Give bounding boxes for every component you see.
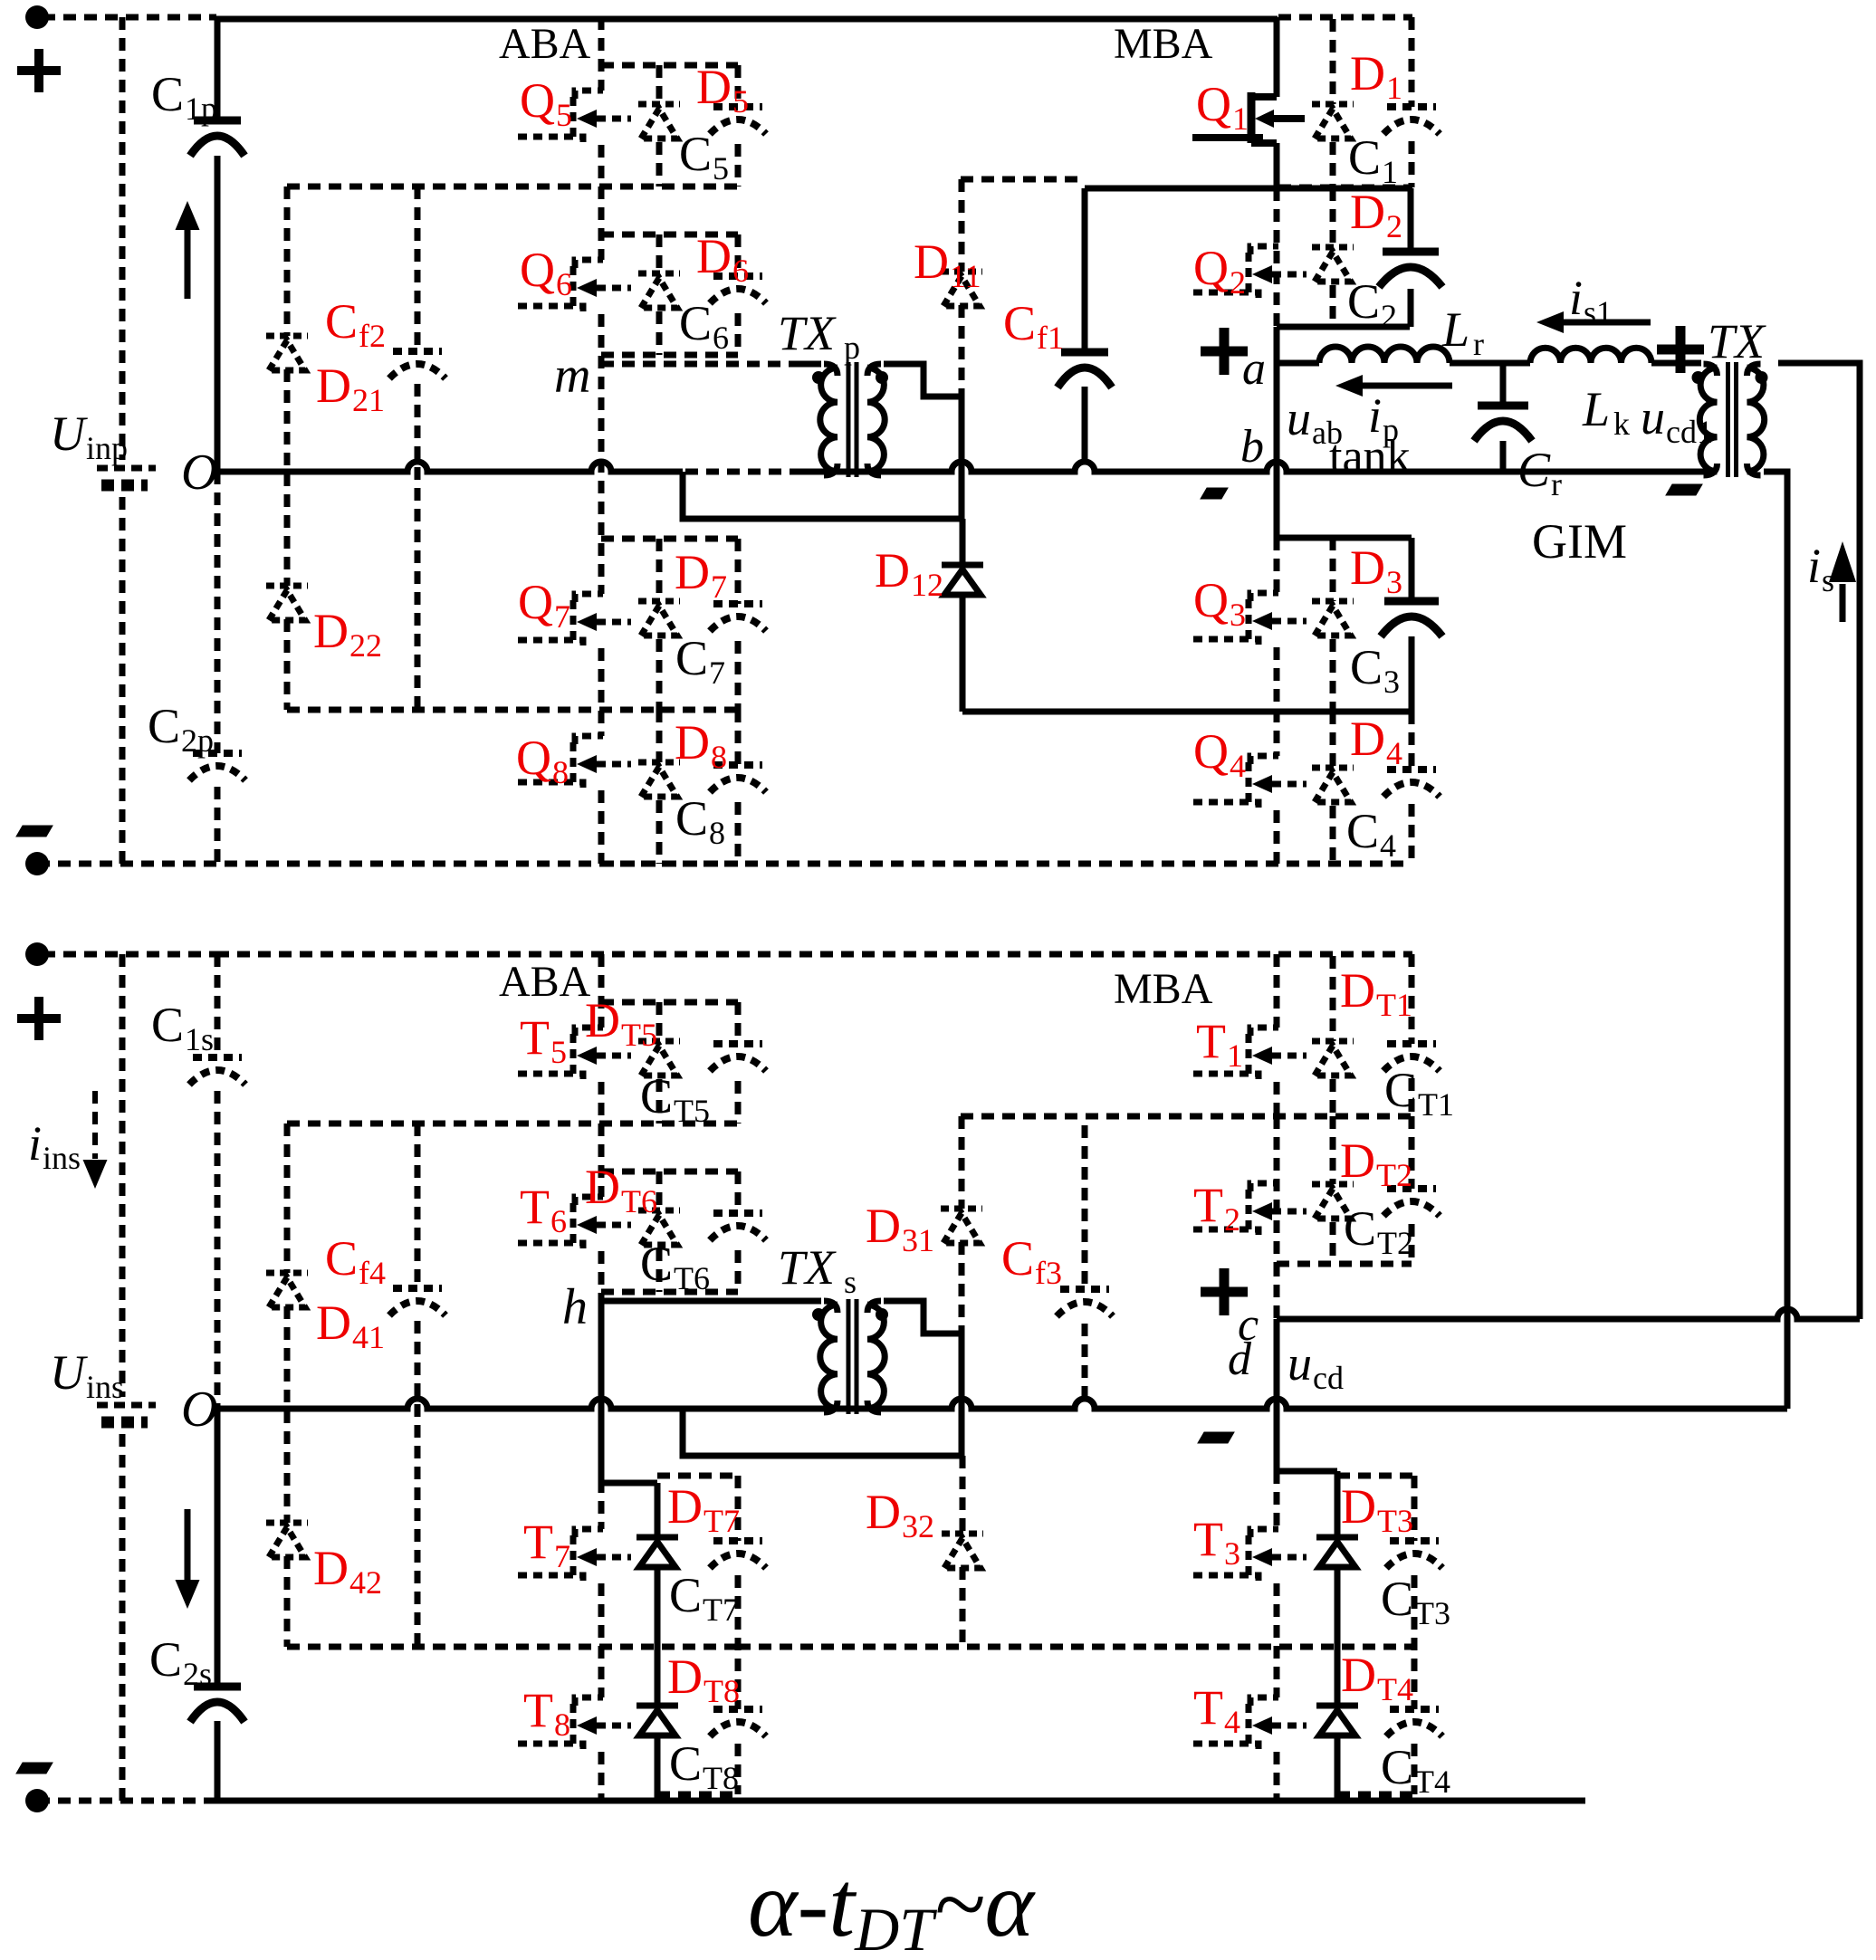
svg-text:C: C (1381, 1572, 1413, 1626)
svg-text:f2: f2 (359, 318, 386, 354)
svg-text:C: C (148, 699, 180, 753)
svg-text:2: 2 (1381, 298, 1397, 334)
svg-text:u: u (1287, 391, 1311, 445)
svg-text:T8: T8 (703, 1760, 739, 1796)
svg-text:C: C (1344, 1201, 1376, 1256)
svg-text:1s: 1s (185, 1021, 214, 1057)
svg-text:T6: T6 (674, 1260, 710, 1296)
svg-text:Q: Q (520, 243, 555, 297)
svg-text:ins: ins (86, 1369, 124, 1405)
svg-text:f4: f4 (359, 1255, 386, 1291)
svg-text:L: L (1582, 382, 1610, 436)
svg-text:2: 2 (1230, 264, 1246, 301)
svg-text:T1: T1 (1418, 1086, 1454, 1123)
svg-text:3: 3 (1224, 1535, 1240, 1572)
svg-text:i: i (1569, 271, 1583, 325)
svg-text:5: 5 (550, 1034, 567, 1070)
svg-text:U: U (50, 1345, 88, 1400)
svg-text:C: C (325, 294, 358, 349)
svg-text:s: s (1822, 562, 1834, 598)
svg-text:p: p (844, 330, 860, 366)
svg-text:TX: TX (778, 1240, 837, 1295)
svg-text:u: u (1287, 1336, 1312, 1391)
svg-text:TX: TX (778, 306, 837, 360)
svg-text:4: 4 (1386, 735, 1402, 771)
svg-text:D: D (1340, 1133, 1375, 1188)
svg-text:7: 7 (711, 569, 727, 605)
svg-text:5: 5 (713, 150, 729, 186)
svg-text:b: b (1240, 421, 1264, 473)
svg-text:4: 4 (1230, 748, 1246, 784)
svg-text:T4: T4 (1377, 1671, 1413, 1707)
svg-text:Q: Q (1193, 724, 1229, 779)
svg-text:C: C (1001, 1231, 1034, 1286)
svg-text:6: 6 (556, 266, 572, 302)
svg-text:D: D (313, 604, 349, 658)
svg-text:1: 1 (1227, 1037, 1243, 1074)
svg-text:41: 41 (352, 1319, 385, 1355)
svg-text:D: D (875, 543, 910, 598)
svg-text:O: O (181, 1382, 217, 1438)
svg-text:T7: T7 (703, 1503, 740, 1539)
svg-text:ABA: ABA (499, 20, 591, 68)
svg-text:C: C (640, 1237, 673, 1291)
svg-text:6: 6 (732, 253, 749, 289)
svg-text:C: C (669, 1736, 702, 1791)
svg-text:7: 7 (554, 598, 570, 635)
svg-text:D: D (313, 1541, 349, 1595)
svg-text:4: 4 (1224, 1704, 1240, 1740)
svg-text:Q: Q (1196, 77, 1231, 131)
svg-text:D: D (1350, 185, 1385, 239)
svg-text:inp: inp (86, 430, 128, 466)
svg-text:Q: Q (520, 73, 555, 128)
svg-text:C: C (149, 1632, 182, 1687)
svg-text:D: D (675, 715, 710, 770)
svg-text:C: C (675, 631, 708, 685)
svg-text:C: C (1347, 274, 1380, 329)
svg-text:u: u (1641, 390, 1665, 445)
svg-text:T: T (1193, 1680, 1223, 1735)
svg-text:5: 5 (732, 83, 749, 120)
svg-text:T: T (1196, 1014, 1226, 1068)
svg-text:1p: 1p (185, 91, 217, 127)
svg-text:C: C (1348, 130, 1381, 185)
svg-text:Q: Q (1193, 241, 1229, 295)
svg-text:Q: Q (1193, 573, 1229, 627)
svg-text:U: U (50, 406, 88, 461)
svg-text:C: C (151, 67, 184, 121)
svg-text:T2: T2 (1376, 1157, 1412, 1193)
svg-text:D: D (1341, 1648, 1376, 1702)
svg-text:D: D (667, 1479, 703, 1534)
svg-text:2: 2 (1224, 1201, 1240, 1238)
svg-text:C: C (1384, 1063, 1417, 1117)
svg-text:4: 4 (1380, 827, 1396, 864)
svg-text:7: 7 (709, 655, 725, 691)
svg-text:8: 8 (554, 1707, 570, 1743)
svg-text:T: T (1193, 1178, 1223, 1232)
svg-text:3: 3 (1230, 597, 1246, 633)
svg-text:D: D (914, 234, 949, 289)
svg-text:12: 12 (911, 567, 943, 603)
svg-text:f1: f1 (1037, 320, 1064, 356)
svg-text:T2: T2 (1377, 1225, 1413, 1261)
svg-text:C: C (1517, 443, 1551, 497)
svg-text:D: D (675, 545, 710, 599)
svg-text:s: s (844, 1264, 857, 1300)
svg-text:T7: T7 (703, 1592, 739, 1628)
svg-text:T8: T8 (703, 1673, 740, 1709)
svg-text:O: O (181, 445, 217, 501)
svg-text:C: C (679, 127, 712, 181)
svg-text:C: C (679, 296, 712, 350)
svg-text:tank: tank (1329, 431, 1411, 483)
svg-text:6: 6 (713, 320, 729, 356)
svg-text:r: r (1473, 326, 1484, 362)
svg-text:D: D (585, 1160, 620, 1214)
svg-text:D: D (1350, 712, 1385, 766)
svg-text:T3: T3 (1414, 1595, 1450, 1631)
svg-text:cd1: cd1 (1666, 414, 1713, 450)
svg-text:TX: TX (1708, 314, 1766, 368)
svg-text:2: 2 (1386, 208, 1402, 244)
svg-text:1: 1 (1386, 70, 1402, 106)
svg-text:11: 11 (950, 258, 981, 294)
svg-text:C: C (640, 1069, 673, 1123)
svg-text:Q: Q (516, 731, 551, 785)
svg-text:3: 3 (1383, 664, 1400, 700)
svg-text:d: d (1228, 1334, 1252, 1385)
svg-text:D: D (696, 60, 732, 114)
svg-text:D: D (585, 993, 620, 1047)
svg-text:32: 32 (902, 1508, 934, 1544)
svg-text:C: C (1350, 640, 1383, 694)
svg-text:D: D (866, 1199, 901, 1253)
svg-text:21: 21 (352, 382, 385, 418)
svg-text:42: 42 (349, 1564, 382, 1601)
svg-text:T5: T5 (674, 1093, 710, 1129)
svg-text:D: D (1341, 1479, 1376, 1534)
svg-text:T: T (523, 1515, 553, 1569)
svg-text:k: k (1613, 406, 1630, 442)
svg-text:T6: T6 (621, 1183, 657, 1219)
svg-text:h: h (562, 1279, 588, 1335)
svg-text:D: D (1350, 540, 1385, 595)
svg-text:T: T (1193, 1512, 1223, 1566)
svg-text:2s: 2s (183, 1656, 212, 1692)
svg-text:C: C (675, 791, 708, 846)
svg-text:i: i (1807, 539, 1821, 593)
svg-text:r: r (1551, 466, 1562, 502)
svg-text:ins: ins (43, 1140, 81, 1176)
svg-text:T5: T5 (621, 1017, 657, 1053)
svg-text:ABA: ABA (499, 958, 591, 1006)
svg-text:T4: T4 (1414, 1764, 1450, 1800)
svg-text:T3: T3 (1377, 1503, 1413, 1539)
svg-text:T1: T1 (1376, 987, 1412, 1023)
svg-text:22: 22 (349, 627, 382, 664)
svg-text:1: 1 (1232, 100, 1249, 137)
svg-text:MBA: MBA (1114, 20, 1213, 68)
svg-text:D: D (316, 1296, 351, 1350)
svg-text:C: C (1003, 296, 1036, 350)
svg-text:L: L (1441, 302, 1469, 357)
svg-text:Q: Q (518, 575, 553, 629)
svg-text:D: D (1350, 46, 1385, 100)
svg-text:3: 3 (1386, 564, 1402, 600)
svg-text:6: 6 (550, 1203, 567, 1239)
svg-text:i: i (28, 1116, 42, 1171)
svg-text:8: 8 (711, 739, 727, 775)
svg-text:T: T (523, 1683, 553, 1737)
svg-text:T: T (520, 1180, 550, 1234)
svg-text:5: 5 (556, 97, 572, 133)
svg-text:C: C (325, 1231, 358, 1286)
svg-text:D: D (696, 229, 732, 283)
svg-text:8: 8 (552, 754, 569, 790)
svg-text:8: 8 (709, 815, 725, 851)
svg-text:s1: s1 (1584, 294, 1613, 330)
svg-text:C: C (1381, 1740, 1413, 1794)
svg-text:31: 31 (902, 1222, 934, 1258)
svg-text:C: C (669, 1568, 702, 1622)
svg-text:D: D (866, 1485, 901, 1539)
svg-text:T: T (520, 1010, 550, 1065)
svg-text:C: C (1346, 804, 1379, 858)
svg-text:7: 7 (554, 1538, 570, 1574)
svg-text:f3: f3 (1035, 1255, 1062, 1291)
svg-text:C: C (151, 998, 184, 1052)
svg-text:m: m (554, 348, 590, 404)
svg-text:2p: 2p (181, 722, 214, 759)
svg-text:D: D (316, 359, 351, 413)
svg-text:cd: cd (1313, 1360, 1344, 1396)
svg-text:MBA: MBA (1114, 965, 1213, 1013)
svg-text:D: D (1340, 963, 1375, 1018)
svg-text:D: D (667, 1649, 703, 1704)
svg-text:GIM: GIM (1532, 514, 1627, 569)
